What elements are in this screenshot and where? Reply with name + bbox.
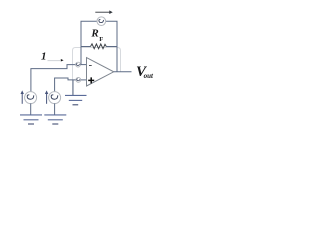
faint rounded box around op-amp — [73, 48, 121, 96]
wire feedback right drop to output — [116, 47, 118, 72]
arrow of source I1 — [21, 90, 24, 103]
svg-text:1: 1 — [41, 50, 47, 62]
input noise circle (inverting input) — [76, 62, 81, 67]
resistor RF leads — [81, 46, 117, 48]
current direction arrow — [95, 10, 112, 14]
wire from source I2 to non-inverting input — [55, 78, 76, 92]
wire top feedback loop — [81, 21, 117, 46]
ground (source I1) — [20, 115, 42, 124]
wire op-amp output — [114, 71, 132, 73]
arrow of source I2 — [45, 90, 48, 103]
wire inverting stub to op-amp — [80, 64, 86, 66]
ground (source I2) — [44, 115, 66, 124]
svg-text:R: R — [90, 27, 98, 39]
current probe circle i (in feedback loop) — [97, 17, 106, 26]
ground (op-amp non-inverting input) — [65, 95, 87, 104]
wire ground stem from non-inverting node — [72, 80, 74, 96]
arrow at node 1 — [61, 59, 64, 62]
current source I1 — [25, 92, 37, 104]
wire feedback left drop to inverting node — [80, 47, 82, 65]
svg-text:F: F — [99, 36, 103, 43]
resistor RF zigzag — [91, 44, 107, 49]
input noise circle (non-inverting input) — [76, 78, 81, 83]
arrow shaft at node 1 — [48, 60, 61, 62]
svg-text:out: out — [144, 72, 154, 80]
current source I2 — [49, 92, 61, 104]
wire source I2 to ground — [54, 103, 56, 115]
wire source I1 to ground — [30, 103, 32, 115]
op-amp U1 — [87, 58, 114, 86]
wire non-inverting stub to op-amp — [81, 79, 87, 81]
wire from source I1 to inverting input — [31, 65, 76, 92]
